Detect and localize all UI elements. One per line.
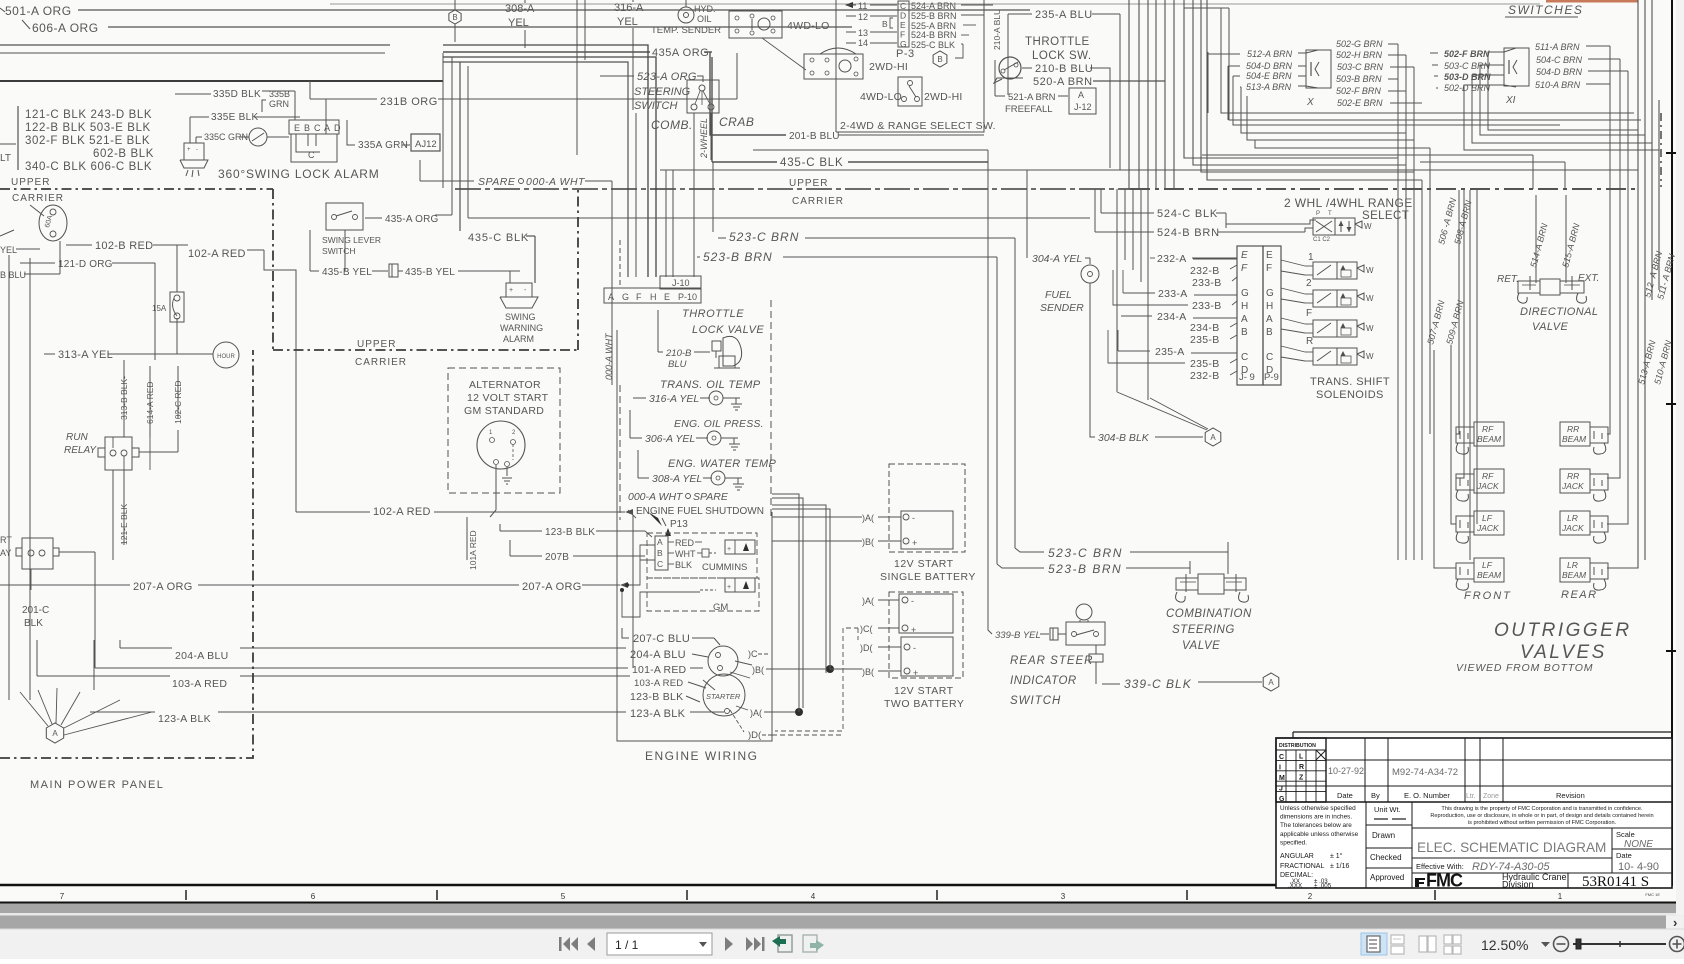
bus vertical x577 <box>576 0 578 155</box>
upper/carrier boundary mid dashed <box>455 188 1130 190</box>
svg-text:WARNING: WARNING <box>500 323 543 333</box>
svg-text:D: D <box>334 123 341 133</box>
svg-text:SWING: SWING <box>505 312 536 322</box>
svg-text:523-B BRN: 523-B BRN <box>1048 562 1122 576</box>
riser pair from dot B <box>772 494 799 712</box>
svg-text:JACK: JACK <box>1561 523 1584 533</box>
svg-text:)B(: )B( <box>862 667 874 677</box>
svg-text:6: 6 <box>311 892 316 901</box>
nested brackets to switch X <box>1221 8 1634 113</box>
svg-text:210-A BLU: 210-A BLU <box>992 9 1002 50</box>
svg-text:)A(: )A( <box>750 708 762 718</box>
wire 102-A riser <box>632 515 634 668</box>
svg-text:)A(: )A( <box>862 596 874 606</box>
svg-text:Revision: Revision <box>1556 791 1585 800</box>
svg-text:504-C BRN: 504-C BRN <box>1536 55 1583 65</box>
connector P-3 pins 11-14 <box>845 2 853 8</box>
svg-text:OUTRIGGER: OUTRIGGER <box>1494 620 1632 641</box>
range select box outline <box>835 0 837 132</box>
svg-text:Date: Date <box>1616 851 1632 860</box>
svg-text:11: 11 <box>858 1 867 11</box>
svg-text:306-A YEL: 306-A YEL <box>645 433 695 445</box>
svg-text:C: C <box>314 123 321 133</box>
svg-text:12V START: 12V START <box>894 685 954 697</box>
svg-text:SWING LEVER: SWING LEVER <box>322 235 381 245</box>
svg-text:102-B RED: 102-B RED <box>95 240 153 252</box>
svg-text:10- 4-90: 10- 4-90 <box>1618 861 1659 873</box>
battery two (b) <box>901 637 953 676</box>
svg-text:E. O. Number: E. O. Number <box>1404 791 1450 800</box>
svg-text:512-A BRN: 512-A BRN <box>1247 49 1293 59</box>
svg-text:235-A: 235-A <box>1155 346 1185 358</box>
svg-text:)B(: )B( <box>862 537 874 547</box>
junction dots <box>826 665 834 673</box>
svg-text:103-A RED: 103-A RED <box>172 678 227 690</box>
svg-text:RET.: RET. <box>1497 274 1519 285</box>
svg-text:BEAM: BEAM <box>1477 570 1502 580</box>
svg-text:COMB.: COMB. <box>651 118 693 132</box>
svg-text:REAR STEER: REAR STEER <box>1010 655 1094 667</box>
svg-text:502-H BRN: 502-H BRN <box>1336 50 1383 60</box>
svg-text:By: By <box>1371 791 1380 800</box>
svg-text:HOUR: HOUR <box>217 354 235 360</box>
svg-text:Z: Z <box>1299 775 1304 782</box>
svg-text:SINGLE BATTERY: SINGLE BATTERY <box>880 571 976 583</box>
svg-text:STEERING: STEERING <box>1172 624 1235 636</box>
svg-text:AY: AY <box>0 548 11 558</box>
relay 4WD-LO <box>729 11 782 38</box>
svg-text:P-9: P-9 <box>1264 372 1279 383</box>
svg-text:B BLU: B BLU <box>0 270 26 280</box>
svg-text:4WD-LO: 4WD-LO <box>860 91 902 103</box>
svg-text:GRN: GRN <box>269 99 289 109</box>
svg-text:THROTTLE: THROTTLE <box>1025 36 1090 48</box>
hexagon node B top <box>449 10 461 24</box>
svg-text:207B: 207B <box>545 552 569 563</box>
svg-text:JACK: JACK <box>1476 523 1499 533</box>
svg-text:504-D BRN: 504-D BRN <box>1246 61 1293 71</box>
svg-text:BLU: BLU <box>668 359 687 370</box>
svg-text:13: 13 <box>858 28 868 38</box>
hexagon node A (304) <box>1205 428 1221 446</box>
svg-text:123-B BLK: 123-B BLK <box>630 691 683 703</box>
svg-text:FMC 1E: FMC 1E <box>1645 892 1660 897</box>
svg-text:J-10: J-10 <box>672 278 690 288</box>
svg-text:503-C BRN: 503-C BRN <box>1337 62 1384 72</box>
svg-text:X: X <box>1306 97 1314 108</box>
svg-text:EXT.: EXT. <box>1578 273 1599 284</box>
bus wire x1156 <box>1155 0 1157 189</box>
svg-text:316-A: 316-A <box>614 2 644 14</box>
drawn/checked/approved <box>1366 847 1412 849</box>
svg-text:± 1/16: ± 1/16 <box>1330 863 1350 870</box>
svg-text:F: F <box>900 30 905 40</box>
toggle switch 4WD-LO/2WD-HI <box>898 77 922 106</box>
svg-text:313-A YEL: 313-A YEL <box>58 349 113 361</box>
svg-text:BEAM: BEAM <box>1477 434 1502 444</box>
svg-text:RR: RR <box>1567 424 1579 434</box>
svg-text:Scale: Scale <box>1616 830 1635 839</box>
svg-text:+: + <box>727 584 731 591</box>
svg-text:SOLENOIDS: SOLENOIDS <box>1316 389 1384 401</box>
svg-text:A: A <box>1210 433 1216 442</box>
svg-text:T: T <box>1328 211 1332 217</box>
svg-text:525-B BRN: 525-B BRN <box>911 11 957 21</box>
svg-text:CRAB: CRAB <box>719 115 754 129</box>
svg-text:LR: LR <box>1567 560 1578 570</box>
svg-text:121-C BLK 243-D BLK: 121-C BLK 243-D BLK <box>25 109 152 121</box>
svg-text:F: F <box>1306 308 1312 319</box>
svg-text:+: + <box>187 147 191 153</box>
svg-text:SWITCH: SWITCH <box>322 246 356 256</box>
outrigger valve RF JACK <box>1474 469 1504 493</box>
svg-text:A: A <box>1241 314 1248 325</box>
svg-text:B: B <box>1266 327 1273 338</box>
solenoid valve 1 <box>1313 262 1337 279</box>
outrigger valve LF BEAM <box>1474 558 1504 582</box>
svg-text:606-A ORG: 606-A ORG <box>32 21 99 35</box>
continuous layout icon <box>1391 935 1404 944</box>
svg-text:BLK: BLK <box>675 560 692 570</box>
svg-text:232-A: 232-A <box>1157 253 1187 265</box>
long rails from switch X right labels <box>1397 44 1399 560</box>
svg-text:+: + <box>913 668 918 678</box>
svg-text:335E BLK: 335E BLK <box>211 112 258 123</box>
svg-text:›: › <box>1673 915 1677 930</box>
leads into J-10 <box>619 240 621 288</box>
svg-text:335D BLK: 335D BLK <box>213 89 261 100</box>
svg-text:E: E <box>294 123 300 133</box>
svg-text:12: 12 <box>858 12 868 22</box>
svg-text:LT: LT <box>0 153 11 164</box>
svg-text:E: E <box>900 20 906 30</box>
outrigger valve LF JACK <box>1474 511 1504 535</box>
svg-text:12V START: 12V START <box>894 558 954 570</box>
svg-text:503-C BRN: 503-C BRN <box>1444 61 1491 71</box>
svg-text:CARRIER: CARRIER <box>792 196 844 207</box>
switch X leads <box>1208 52 1240 54</box>
alternator ground <box>506 467 508 476</box>
svg-text:H: H <box>650 292 657 302</box>
prev-view icon <box>778 935 792 952</box>
heavy bus y81 <box>0 80 443 82</box>
svg-text:VIEWED FROM BOTTOM: VIEWED FROM BOTTOM <box>1456 662 1593 674</box>
alternator dashed box <box>448 368 560 493</box>
svg-text:231B ORG: 231B ORG <box>380 96 438 108</box>
svg-text:G: G <box>622 292 629 302</box>
svg-text:+: + <box>912 538 917 548</box>
svg-text:DISTRIBUTION: DISTRIBUTION <box>1279 743 1316 749</box>
svg-text:504-D BRN: 504-D BRN <box>1536 67 1583 77</box>
svg-text:YEL: YEL <box>0 245 17 255</box>
svg-text:R: R <box>1299 764 1304 771</box>
left edge verticals <box>8 255 10 700</box>
diagonals into node A <box>1117 392 1207 430</box>
svg-text:A: A <box>52 729 58 738</box>
svg-text:232-B: 232-B <box>1190 370 1220 382</box>
HYD OIL TEMP sender <box>678 7 694 23</box>
svg-text:COMBINATION: COMBINATION <box>1166 608 1252 620</box>
bus wire x1148 <box>1147 0 1149 189</box>
wire 304-B BLK right <box>1147 400 1149 430</box>
hexagon node B mid <box>933 51 947 67</box>
svg-text:SWITCH: SWITCH <box>634 100 677 112</box>
starter motor <box>703 674 745 716</box>
outrigger valve LR JACK <box>1560 511 1590 535</box>
svg-text:525-C BLK: 525-C BLK <box>911 40 955 50</box>
svg-text:W: W <box>1366 266 1374 275</box>
svg-text:applicable unless otherwise: applicable unless otherwise <box>1280 831 1359 838</box>
solenoid feed rails <box>1469 190 1471 560</box>
svg-text:REAR: REAR <box>1561 589 1598 601</box>
svg-text:+: + <box>727 546 731 553</box>
svg-text:523-A ORG: 523-A ORG <box>637 71 697 83</box>
svg-text:1 / 1: 1 / 1 <box>615 938 639 952</box>
svg-text:304-A YEL: 304-A YEL <box>1032 253 1082 265</box>
wire risers to batteries <box>795 516 862 518</box>
alternator leads <box>495 465 497 510</box>
unit wt box <box>1366 824 1412 826</box>
svg-text:233-B: 233-B <box>1192 300 1222 312</box>
svg-text:VALVE: VALVE <box>1182 640 1220 652</box>
svg-text:210-B: 210-B <box>665 348 692 359</box>
svg-text:513-A BRN: 513-A BRN <box>1246 82 1292 92</box>
svg-text:SENDER: SENDER <box>1040 302 1084 314</box>
svg-text:W: W <box>1364 222 1372 231</box>
right-edge bus verticals <box>1607 46 1610 434</box>
svg-text:339-C BLK: 339-C BLK <box>1124 677 1192 691</box>
upper/carrier boundary left <box>0 188 273 190</box>
svg-text:233-A: 233-A <box>1158 288 1188 300</box>
svg-text:7: 7 <box>60 892 65 901</box>
svg-text:SPARE: SPARE <box>693 491 729 503</box>
svg-text:308-A: 308-A <box>505 3 535 15</box>
svg-text:D: D <box>900 11 906 21</box>
svg-text:STEERING: STEERING <box>634 86 691 98</box>
fuel sender <box>1081 265 1099 283</box>
svg-text:Zone: Zone <box>1483 793 1499 800</box>
svg-text:FUEL: FUEL <box>1045 289 1072 301</box>
page number box <box>607 933 712 955</box>
next-page button <box>725 937 733 951</box>
svg-text:INDICATOR: INDICATOR <box>1010 675 1077 687</box>
svg-text:NONE: NONE <box>1624 839 1653 850</box>
svg-text:Unit Wt.: Unit Wt. <box>1374 805 1401 814</box>
connector AJ12 <box>411 134 440 151</box>
svg-text:Reproduction, use or disclosur: Reproduction, use or disclosure, in whol… <box>1430 813 1653 819</box>
svg-text:435-B YEL: 435-B YEL <box>322 267 372 278</box>
svg-text:1: 1 <box>1558 892 1563 901</box>
svg-text:204-A BLU: 204-A BLU <box>175 650 228 662</box>
connector P-3 <box>898 1 909 47</box>
svg-text:)D(: )D( <box>860 643 873 653</box>
svg-text:4WD-LO: 4WD-LO <box>787 20 830 32</box>
alternator <box>477 421 525 469</box>
svg-text:CUMMINS: CUMMINS <box>702 562 747 573</box>
svg-text:510-A BRN: 510-A BRN <box>1535 80 1581 90</box>
svg-text:XI: XI <box>1505 95 1516 106</box>
svg-text:235-A BLU: 235-A BLU <box>1035 9 1093 21</box>
svg-text:210-B BLU: 210-B BLU <box>1035 63 1093 75</box>
svg-text:E: E <box>1266 250 1273 261</box>
svg-text:3: 3 <box>1061 892 1066 901</box>
zoom out button <box>1554 937 1569 952</box>
svg-text:235-B: 235-B <box>1190 334 1220 346</box>
svg-text:Approved: Approved <box>1370 873 1404 882</box>
svg-text:502-G BRN: 502-G BRN <box>1336 39 1383 49</box>
hour meter <box>213 342 239 368</box>
svg-text:)C(: )C( <box>860 624 873 634</box>
prev-page button <box>587 937 595 951</box>
svg-text:GM STANDARD: GM STANDARD <box>464 405 544 417</box>
svg-text:RF: RF <box>1482 471 1494 481</box>
combination steering valve <box>1198 574 1224 594</box>
long thin rail y218 <box>467 66 469 218</box>
wire-list bracket <box>17 106 19 170</box>
svg-text:602-B BLK: 602-B BLK <box>93 148 154 160</box>
bus wire x1139 <box>1138 0 1140 189</box>
svg-text:BLK: BLK <box>24 618 43 629</box>
rail drop verticals <box>1532 155 1534 189</box>
svg-text:LOCK VALVE: LOCK VALVE <box>692 324 764 336</box>
svg-text:B: B <box>1241 327 1248 338</box>
svg-text:VALVES: VALVES <box>1520 642 1607 663</box>
svg-text:235-B: 235-B <box>1190 358 1220 370</box>
orange strip top right <box>1546 0 1638 3</box>
svg-text:B: B <box>882 19 888 29</box>
svg-text:123-A BLK: 123-A BLK <box>158 713 211 725</box>
svg-text:-: - <box>912 513 915 523</box>
svg-text:W: W <box>1366 352 1374 361</box>
svg-text:Date: Date <box>1337 791 1353 800</box>
svg-text:524-A BRN: 524-A BRN <box>911 1 956 11</box>
svg-text:502-F BRN: 502-F BRN <box>1444 49 1490 59</box>
svg-text:B: B <box>452 13 457 22</box>
svg-text:A: A <box>324 123 330 133</box>
svg-text:UPPER: UPPER <box>357 339 396 350</box>
svg-text:WHT: WHT <box>675 549 696 559</box>
svg-text:ELEC. SCHEMATIC DIAGRAM: ELEC. SCHEMATIC DIAGRAM <box>1417 840 1606 855</box>
zoom slider <box>1573 943 1666 945</box>
svg-text:FREEFALL: FREEFALL <box>1005 104 1053 115</box>
svg-text:VALVE: VALVE <box>1532 321 1569 333</box>
svg-text:2-WHEEL: 2-WHEEL <box>699 118 709 159</box>
svg-text:E: E <box>1241 250 1248 261</box>
gray band 1 <box>0 904 1684 914</box>
relay 2WD-HI <box>804 54 863 79</box>
svg-text:C: C <box>657 559 663 569</box>
first-page button <box>559 937 562 951</box>
svg-text:502-F BRN: 502-F BRN <box>1336 86 1381 96</box>
bus wire x1174 <box>1173 0 1175 189</box>
svg-text:)C: )C <box>748 649 758 659</box>
svg-text:C: C <box>900 1 906 11</box>
svg-text:435-C BLK: 435-C BLK <box>780 157 843 169</box>
dashed C/D routing <box>775 628 843 731</box>
svg-text:A: A <box>1268 678 1274 687</box>
alarm battery symbol <box>184 143 204 160</box>
svg-text:LF: LF <box>1482 513 1493 523</box>
svg-text:504-E BRN: 504-E BRN <box>1246 71 1292 81</box>
svg-text:LR: LR <box>1567 513 1578 523</box>
svg-text:ENGINE FUEL SHUTDOWN: ENGINE FUEL SHUTDOWN <box>636 506 764 517</box>
svg-text:JACK: JACK <box>1476 481 1499 491</box>
svg-text:524-C BLK: 524-C BLK <box>1157 208 1218 220</box>
steering switch <box>687 80 719 113</box>
svg-text:A: A <box>608 292 614 302</box>
svg-text:SPARE: SPARE <box>478 176 516 188</box>
svg-text:102-A RED: 102-A RED <box>373 506 431 518</box>
svg-text:2: 2 <box>1306 278 1312 289</box>
svg-text:H: H <box>1241 301 1248 312</box>
two-page layout icon <box>1419 936 1427 952</box>
dark bus elbows left of 435A <box>443 45 648 277</box>
mid rail y170 <box>660 169 1638 171</box>
svg-text:2: 2 <box>1308 892 1313 901</box>
svg-text:C: C <box>1241 352 1248 363</box>
svg-text:12 VOLT START: 12 VOLT START <box>467 392 549 404</box>
svg-text:)D(: )D( <box>748 730 762 741</box>
svg-text:2WD-HI: 2WD-HI <box>924 91 963 103</box>
svg-text:BEAM: BEAM <box>1562 570 1587 580</box>
svg-text:YEL: YEL <box>508 17 529 29</box>
svg-text:5: 5 <box>561 892 566 901</box>
svg-text:14: 14 <box>858 38 868 48</box>
toolbar <box>0 929 1684 959</box>
outrigger feed elbows left column <box>1456 190 1459 434</box>
svg-text:302-F BLK 521-E BLK: 302-F BLK 521-E BLK <box>25 135 150 147</box>
svg-text:FMC: FMC <box>1426 871 1463 891</box>
svg-text:207-A ORG: 207-A ORG <box>133 581 193 593</box>
svg-text:FRONT: FRONT <box>1464 590 1512 602</box>
svg-text:503-B BRN: 503-B BRN <box>1336 74 1382 84</box>
vertical scrollbar <box>1676 0 1684 915</box>
svg-text:H: H <box>1266 301 1273 312</box>
connector P13 A/B/C <box>655 536 668 570</box>
svg-text:339-B YEL: 339-B YEL <box>995 630 1041 641</box>
svg-text:TWO BATTERY: TWO BATTERY <box>884 698 964 710</box>
svg-text:P-10: P-10 <box>678 292 697 302</box>
svg-text:specified.: specified. <box>1280 839 1307 846</box>
svg-text:15A: 15A <box>152 304 167 313</box>
throttle lock valve symbol <box>712 341 721 351</box>
swing warning alarm horn <box>509 271 511 283</box>
page right border <box>1671 0 1673 886</box>
bus wire x1129 <box>1128 0 1130 189</box>
outrigger valve RF BEAM <box>1474 422 1504 446</box>
svg-text:G: G <box>1266 288 1274 299</box>
switch XI leads <box>1430 52 1438 54</box>
svg-text:103-A RED: 103-A RED <box>634 678 683 689</box>
main power panel fan to node A <box>46 723 63 743</box>
upper/carrier boundary left-mid <box>273 349 578 351</box>
svg-text:B: B <box>657 548 663 558</box>
svg-text:Checked: Checked <box>1370 853 1402 862</box>
svg-text:W: W <box>1366 294 1374 303</box>
svg-text:53R0141 S: 53R0141 S <box>1582 874 1649 890</box>
svg-text:)B(: )B( <box>752 665 764 675</box>
battery two (a) <box>899 594 953 633</box>
svg-text:TEMP. SENDER: TEMP. SENDER <box>651 25 721 36</box>
svg-text:234-A: 234-A <box>1157 311 1187 323</box>
svg-text:± .005: ± .005 <box>1314 883 1332 890</box>
bottom page border <box>0 884 1672 887</box>
svg-text:207-A ORG: 207-A ORG <box>522 581 582 593</box>
svg-text:ANGULAR: ANGULAR <box>1280 853 1314 860</box>
svg-text:4: 4 <box>811 892 816 901</box>
bus wire x1165 <box>1164 0 1166 189</box>
swing-lock pressure switch <box>249 128 267 146</box>
